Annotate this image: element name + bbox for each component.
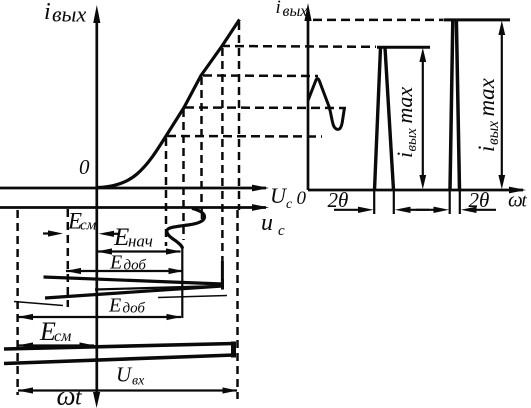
- svg-text:см: см: [80, 218, 97, 234]
- svg-text:0: 0: [79, 155, 90, 179]
- wedge 2 thin right: [158, 296, 227, 298]
- svg-text:i: i: [276, 0, 281, 18]
- pulse 1 top bar y=47.3: [377, 46, 430, 49]
- label i_vyh max 2 (rotated): [474, 77, 502, 152]
- solid x=222 to wedge hook: [221, 261, 224, 285]
- bottom vertical dashed guide x=17.6: [16, 210, 19, 395]
- solid boundary line x=182.3 lower: [181, 247, 183, 318]
- vertical dashed from curve x=201: [200, 77, 203, 206]
- big wedge right cap: [231, 342, 236, 358]
- horizontal dashed level y=136: [167, 135, 322, 138]
- i_vyh max arrow 2: [498, 21, 505, 190]
- svg-text:2θ: 2θ: [469, 188, 490, 212]
- label E_sm 1: [67, 209, 97, 234]
- pulse 1 below-axis extensions: [374, 190, 394, 214]
- label U_vh: [116, 363, 145, 389]
- wedge 1 hook: [221, 279, 224, 290]
- svg-text:нач: нач: [128, 232, 153, 251]
- label E_nach: [113, 224, 153, 251]
- svg-text:ω: ω: [57, 381, 76, 408]
- i_vyh max arrow 1: [419, 48, 426, 190]
- big wedge upper line: [4, 344, 234, 350]
- label E_sm 2: [39, 317, 71, 346]
- svg-text:доб: доб: [123, 301, 146, 317]
- small distorted sine wave right graph: [308, 79, 345, 130]
- vertical dashed from curve x=184: [182, 109, 185, 240]
- pulse 2 below-axis extensions: [450, 190, 460, 214]
- bottom vertical dashed guide x=67.8: [67, 209, 70, 307]
- solid stub x=201.5 below axis to sine peak: [201, 208, 203, 220]
- svg-text:вых: вых: [283, 3, 308, 20]
- row A: E_sm arrows: [43, 230, 119, 237]
- label U_c: [270, 183, 293, 212]
- pulse 2 width arrows: [416, 207, 496, 213]
- label i_vyh right: [276, 0, 308, 20]
- svg-text:i: i: [44, 0, 51, 25]
- horizontal axis U_c: [0, 185, 269, 192]
- svg-text:Е: Е: [108, 295, 121, 317]
- transfer characteristic curve: [97, 20, 240, 188]
- label omega-t right: [508, 188, 528, 212]
- wedge 1 upper line: [44, 277, 223, 284]
- svg-text:вх: вх: [132, 374, 145, 389]
- row C: E_dob outer arrow: [66, 268, 184, 274]
- svg-text:u: u: [261, 210, 273, 236]
- label E_dob 1: [109, 252, 146, 274]
- pulse 2 (narrow): [450, 21, 460, 191]
- vertical dashed guide right bottom: [236, 210, 239, 399]
- pulse 2 top bar y=19.9: [444, 18, 511, 21]
- svg-text:i: i: [474, 146, 499, 152]
- label 2theta 2: [469, 188, 490, 212]
- horizontal dashed level y=19.9 top: [313, 19, 443, 22]
- label u_c: [261, 210, 285, 239]
- svg-text:2θ: 2θ: [328, 188, 349, 212]
- label i_vyh left: [44, 0, 86, 27]
- wedge 2 thin left: [14, 302, 63, 306]
- vertical dashed from curve x=222: [221, 48, 224, 261]
- wedge 1 lower line: [45, 286, 223, 298]
- svg-text:вых: вых: [52, 2, 86, 27]
- svg-text:i: i: [392, 152, 417, 158]
- horizontal dashed level y=46: [221, 45, 376, 48]
- vertical dashed from curve x=166: [165, 138, 168, 246]
- pulse 1 (trapezoid): [375, 48, 394, 191]
- svg-text:max: max: [474, 77, 499, 116]
- left vertical axis i_vyh (extends down as omega-t axis): [93, 5, 100, 408]
- svg-text:c: c: [286, 197, 293, 212]
- pulse 1 width arrows: [334, 207, 429, 213]
- svg-text:0: 0: [297, 188, 307, 209]
- svg-text:max: max: [392, 87, 417, 124]
- svg-text:Е: Е: [113, 224, 129, 251]
- big wedge lower line: [4, 355, 234, 364]
- vertical dashed from apex x=239: [238, 22, 241, 210]
- label 2theta 1: [328, 188, 349, 212]
- label E_dob 2: [108, 295, 145, 317]
- label omega-t bottom: [57, 381, 84, 408]
- svg-text:вых: вых: [404, 128, 420, 152]
- label i_vyh max 1 (rotated): [392, 87, 420, 158]
- svg-text:вых: вых: [485, 121, 502, 145]
- wedge 1 mid line: [95, 286, 220, 290]
- row B: E_dob inner arrow: [97, 248, 182, 254]
- svg-text:t: t: [522, 191, 528, 212]
- horizontal axis u_c: [0, 204, 269, 211]
- svg-text:c: c: [278, 223, 285, 239]
- row E: E_sm 2 arrow: [18, 342, 95, 348]
- right graph horizontal axis omega-t: [308, 187, 526, 194]
- horizontal dashed level y=75.5: [203, 74, 318, 77]
- row D: E_dob 2 arrow: [18, 314, 182, 320]
- svg-text:U: U: [116, 363, 133, 387]
- row F: U_vh arrow: [18, 387, 238, 393]
- horizontal dashed level y=107.5: [185, 106, 346, 109]
- sideways sine below axis (input case 1): [167, 208, 205, 248]
- svg-text:см: см: [54, 328, 71, 345]
- right graph vertical axis: [304, 3, 311, 190]
